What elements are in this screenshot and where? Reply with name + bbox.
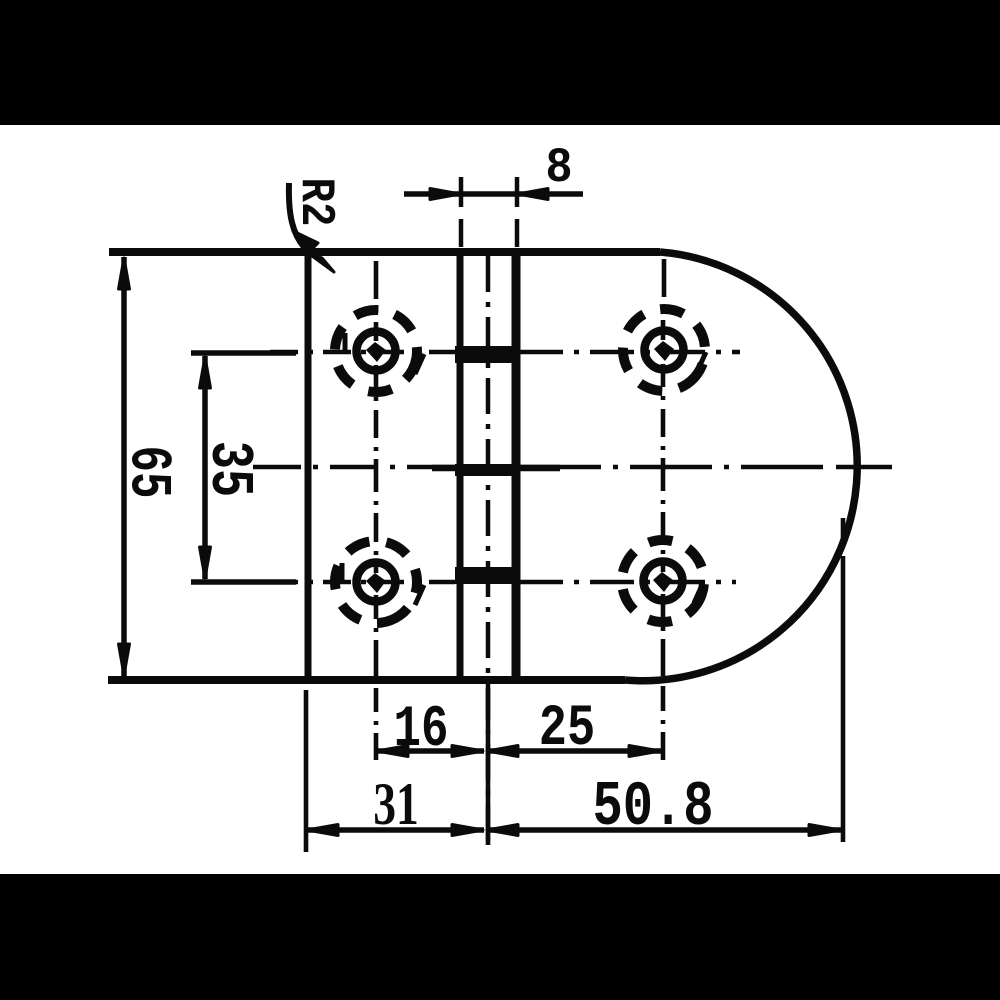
- dim 8 arrows: [430, 189, 548, 200]
- hinge plate top edge: [109, 248, 660, 256]
- svg-text:50.8: 50.8: [593, 773, 714, 844]
- centerline horizontal row2 left: [270, 580, 455, 585]
- svg-text:8: 8: [545, 141, 572, 196]
- dim 35 line: [202, 356, 208, 579]
- hole H4 dashed star circle: [610, 528, 715, 633]
- dim 35 arrows: [200, 357, 211, 578]
- hole H2 right hook tick: [697, 352, 706, 372]
- knuckle left line: [457, 255, 464, 678]
- dim 65 arrows: [119, 258, 130, 675]
- centerline vertical through H2 H4: [663, 259, 664, 760]
- centerline horizontal row1 left: [270, 350, 455, 355]
- dim 8 line: [404, 191, 583, 197]
- hole H2 ring: [645, 331, 684, 370]
- R2 leader line: [289, 183, 304, 247]
- dim 31 line: [306, 827, 484, 833]
- dim 25 arrows: [487, 746, 660, 757]
- knuckle band middle: [455, 464, 519, 476]
- dim 35 extension bottom: [191, 579, 296, 585]
- centerline middle heavy dashes near knuckle: [432, 465, 560, 472]
- centerline vertical pin axis: [486, 256, 491, 845]
- dim 16 arrows: [377, 746, 483, 757]
- hinge plate left edge: [305, 254, 312, 678]
- hole H4 center blob: [653, 572, 673, 592]
- hole H3 right hook tick: [415, 585, 424, 605]
- centerline horizontal row2 right: [519, 580, 736, 585]
- R2 leader arrowhead: [293, 231, 334, 272]
- centerline horizontal middle left section: [253, 465, 455, 470]
- dim 16 line: [376, 748, 484, 754]
- svg-text:R2: R2: [288, 178, 342, 227]
- bottom black bar: [0, 874, 1000, 1000]
- hole H1 center blob: [366, 342, 386, 362]
- svg-text:35: 35: [194, 441, 262, 497]
- hole H1 left tick: [343, 333, 348, 352]
- top black bar: [0, 0, 1000, 125]
- dim 31 arrows: [307, 825, 483, 836]
- extension line right apex: [841, 518, 846, 842]
- knuckle band row1: [455, 346, 519, 363]
- hole H3 left tick: [340, 563, 345, 582]
- knuckle band row2: [455, 567, 519, 584]
- centerline middle apex segment: [836, 465, 892, 470]
- hole H4 right hook tick: [694, 583, 703, 603]
- hinge plate bottom edge: [108, 676, 625, 684]
- centerline vertical through H1 H3: [374, 261, 379, 760]
- svg-text:31: 31: [373, 771, 419, 837]
- hole H2 center blob: [654, 341, 674, 361]
- dim 25 line: [486, 748, 661, 754]
- svg-text:65: 65: [114, 446, 179, 499]
- knuckle right line: [512, 255, 521, 678]
- extension line plate left bottom: [304, 690, 309, 852]
- dim 65 line: [121, 257, 127, 676]
- hole H1 dashed star circle: [329, 304, 424, 399]
- hinge plate right arc: [625, 252, 857, 681]
- svg-text:16: 16: [394, 696, 449, 763]
- hole H3 dashed star circle: [319, 525, 433, 639]
- dim 50.8 arrows: [487, 825, 840, 836]
- hole H2 dashed star circle: [607, 293, 721, 407]
- hole H1 ring: [357, 332, 396, 371]
- centerline horizontal middle right section: [519, 465, 826, 470]
- svg-text:25: 25: [539, 696, 595, 762]
- hole H3 ring: [357, 563, 396, 602]
- dim 8 extension lines: [461, 177, 517, 247]
- hole H3 center blob: [366, 573, 386, 593]
- hole H4 ring: [644, 562, 683, 601]
- pin ext solid below plate: [486, 688, 491, 845]
- centerline horizontal row1 right: [519, 350, 740, 355]
- dim 35 extension top: [191, 350, 296, 356]
- dim 50.8 line: [486, 827, 841, 833]
- hole H1 right hook tick: [415, 354, 424, 374]
